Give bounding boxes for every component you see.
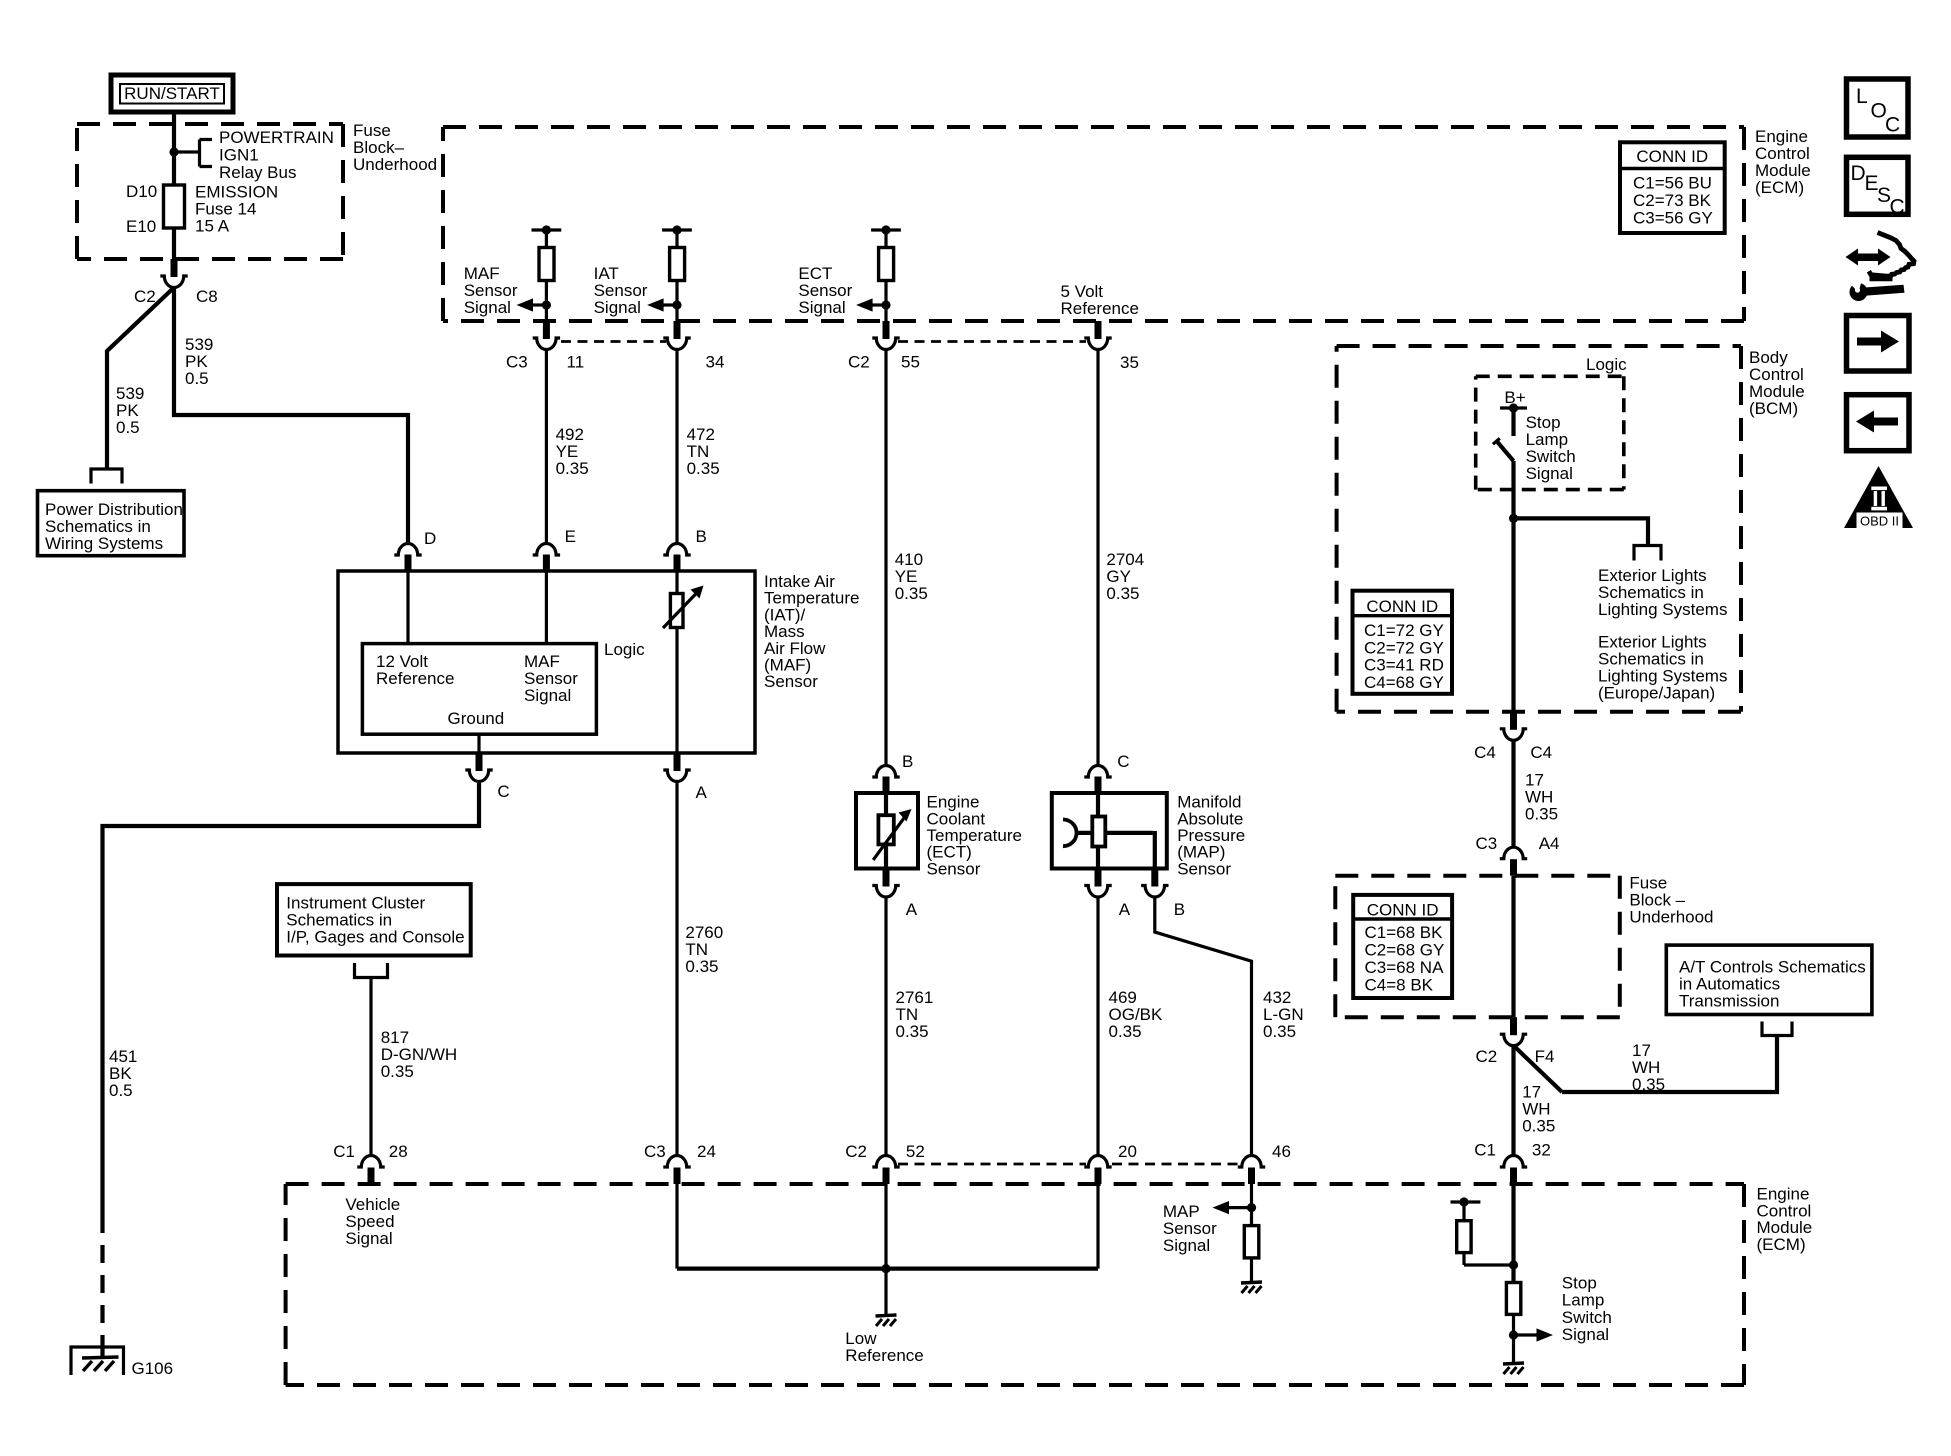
svg-text:0.5: 0.5 [116,418,140,437]
svg-text:Reference: Reference [376,669,454,688]
svg-text:F4: F4 [1535,1047,1555,1066]
svg-text:A4: A4 [1539,834,1560,853]
svg-text:C: C [1885,114,1900,137]
svg-text:Sensor: Sensor [927,859,981,878]
svg-text:C2=72 GY: C2=72 GY [1364,638,1444,657]
svg-text:C3=68 NA: C3=68 NA [1365,958,1445,977]
svg-text:Signal: Signal [345,1229,392,1248]
svg-text:Lighting Systems: Lighting Systems [1598,600,1727,619]
svg-text:Signal: Signal [798,298,845,317]
svg-text:0.35: 0.35 [895,584,928,603]
svg-text:(Europe/Japan): (Europe/Japan) [1598,684,1715,703]
svg-text:E10: E10 [126,217,156,236]
svg-text:0.35: 0.35 [1525,805,1558,824]
svg-text:Relay Bus: Relay Bus [219,163,296,182]
svg-text:C2: C2 [134,287,156,306]
svg-text:C: C [1117,752,1129,771]
svg-text:0.35: 0.35 [556,459,589,478]
svg-text:C2: C2 [845,1142,867,1161]
svg-text:C2: C2 [848,353,870,372]
svg-text:0.35: 0.35 [381,1062,414,1081]
svg-text:52: 52 [906,1142,925,1161]
svg-text:24: 24 [697,1142,716,1161]
svg-text:C1=56 BU: C1=56 BU [1633,174,1712,193]
svg-text:0.35: 0.35 [1263,1022,1296,1041]
svg-text:G106: G106 [132,1359,174,1378]
svg-text:C: C [497,782,509,801]
svg-text:Signal: Signal [464,298,511,317]
svg-text:Switch: Switch [1562,1308,1612,1327]
svg-text:RUN/START: RUN/START [124,84,220,103]
svg-text:Sensor: Sensor [764,672,818,691]
svg-text:C3: C3 [1476,834,1498,853]
svg-text:I/P, Gages and Console: I/P, Gages and Console [286,928,464,947]
svg-text:CONN ID: CONN ID [1366,597,1438,616]
svg-text:C3=56 GY: C3=56 GY [1633,208,1713,227]
svg-text:0.35: 0.35 [1109,1022,1142,1041]
svg-text:35: 35 [1120,353,1139,372]
svg-text:20: 20 [1118,1142,1137,1161]
svg-text:C2: C2 [1476,1047,1498,1066]
svg-text:D: D [1851,162,1866,185]
svg-text:C1: C1 [1474,1141,1496,1160]
svg-text:Lamp: Lamp [1562,1291,1605,1310]
svg-text:L: L [1856,85,1868,108]
svg-text:C2=68 GY: C2=68 GY [1365,941,1445,960]
svg-text:C3: C3 [644,1142,666,1161]
svg-text:C2=73 BK: C2=73 BK [1633,191,1712,210]
svg-text:55: 55 [901,353,920,372]
svg-text:C3: C3 [506,353,528,372]
svg-text:C8: C8 [196,287,218,306]
svg-text:Signal: Signal [1526,464,1573,483]
svg-text:Stop: Stop [1562,1273,1597,1292]
svg-text:D: D [424,529,436,548]
svg-text:A: A [906,900,918,919]
svg-text:POWERTRAIN: POWERTRAIN [219,128,334,147]
svg-text:0.35: 0.35 [685,957,718,976]
svg-text:Wiring Systems: Wiring Systems [45,534,163,553]
svg-text:C1: C1 [333,1142,355,1161]
svg-text:C1=72 GY: C1=72 GY [1364,621,1444,640]
svg-text:11: 11 [567,353,585,372]
svg-text:D10: D10 [126,182,157,201]
svg-text:Ground: Ground [448,709,505,728]
svg-text:B: B [1174,900,1185,919]
svg-text:(ECM): (ECM) [1755,178,1804,197]
svg-text:Signal: Signal [594,298,641,317]
svg-text:Transmission: Transmission [1679,992,1779,1011]
svg-text:34: 34 [706,353,725,372]
svg-text:Sensor: Sensor [1177,859,1231,878]
svg-text:C1=68 BK: C1=68 BK [1365,923,1444,942]
svg-text:Signal: Signal [524,686,571,705]
svg-text:C4=68 GY: C4=68 GY [1364,673,1444,692]
svg-text:C4: C4 [1474,743,1496,762]
svg-text:28: 28 [389,1142,408,1161]
svg-text:0.35: 0.35 [1522,1117,1555,1136]
svg-text:Logic: Logic [1586,355,1627,374]
svg-text:OBD II: OBD II [1860,514,1899,529]
svg-text:(BCM): (BCM) [1749,399,1798,418]
svg-text:IGN1: IGN1 [219,146,259,165]
svg-text:E: E [565,527,576,546]
svg-text:(ECM): (ECM) [1757,1235,1806,1254]
svg-text:A: A [1119,900,1131,919]
svg-text:15 A: 15 A [195,217,230,236]
svg-text:B: B [696,527,707,546]
svg-text:CONN ID: CONN ID [1636,147,1708,166]
svg-text:0.35: 0.35 [1106,584,1139,603]
svg-text:Logic: Logic [604,640,645,659]
svg-text:B: B [902,752,913,771]
svg-text:Underhood: Underhood [1629,908,1713,927]
svg-text:32: 32 [1532,1141,1551,1160]
svg-text:Underhood: Underhood [353,155,437,174]
svg-text:Reference: Reference [845,1346,923,1365]
svg-text:C4=8 BK: C4=8 BK [1365,975,1434,994]
svg-text:C4: C4 [1530,743,1552,762]
svg-text:0.35: 0.35 [896,1022,929,1041]
svg-text:A: A [696,783,708,802]
svg-text:0.5: 0.5 [109,1081,133,1100]
svg-text:0.35: 0.35 [687,459,720,478]
svg-text:Signal: Signal [1163,1236,1210,1255]
svg-text:Signal: Signal [1562,1325,1609,1344]
svg-text:CONN ID: CONN ID [1367,901,1439,920]
svg-text:C3=41 RD: C3=41 RD [1364,656,1444,675]
svg-text:0.5: 0.5 [185,369,209,388]
svg-text:C: C [1890,196,1905,219]
svg-text:46: 46 [1272,1142,1291,1161]
svg-text:0.35: 0.35 [1632,1075,1665,1094]
svg-text:Reference: Reference [1061,299,1139,318]
